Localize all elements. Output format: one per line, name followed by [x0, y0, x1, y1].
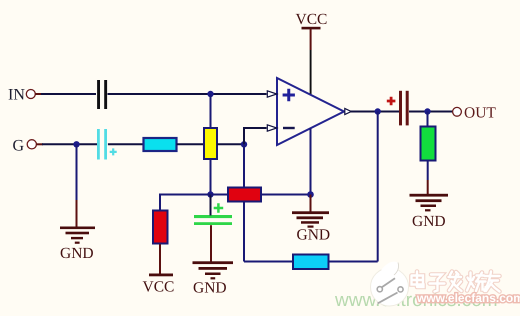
- wire feedback bottom right: [329, 261, 378, 263]
- capacitor C2 (cyan electrolytic): [97, 129, 117, 160]
- node IN-R2 junction: [207, 91, 213, 97]
- wire capacitor to opamp plus input: [108, 93, 267, 95]
- capacitor C3 (green electrolytic): [194, 203, 232, 225]
- svg-text:VCC: VCC: [296, 11, 328, 28]
- resistor R1 (cyan horizontal): [144, 138, 177, 151]
- pin arrow plus input: [267, 91, 277, 97]
- node G junction: [73, 141, 79, 147]
- OUT terminal: [453, 107, 462, 116]
- wire R4 to ground: [427, 161, 429, 195]
- wire opamp bottom to gnd node: [310, 128, 312, 195]
- wire R5 to opamp-gnd node: [261, 194, 311, 196]
- capacitor C1 (input, black): [97, 80, 107, 109]
- power VCC (top): [296, 11, 328, 29]
- node R2-bottom junction: [207, 191, 213, 197]
- node OUT junction: [424, 108, 430, 114]
- resistor R5 (red horizontal): [228, 188, 261, 202]
- wire node left to R3: [160, 195, 211, 212]
- node output junction: [375, 108, 381, 114]
- wire G to capacitor C2: [42, 143, 97, 145]
- svg-text:GND: GND: [60, 245, 94, 262]
- wire IN stub: [35, 93, 42, 95]
- svg-text:OUT: OUT: [464, 105, 496, 122]
- node opamp ground junction: [307, 191, 314, 198]
- wire C3 to ground: [210, 225, 212, 261]
- watermark green url text: [334, 290, 498, 311]
- IN label: [8, 87, 25, 104]
- svg-text:IN: IN: [8, 87, 25, 104]
- wire junction down to R4: [427, 112, 429, 128]
- wire junction up to minus input: [244, 128, 267, 144]
- wire R2 bottom to node: [210, 159, 212, 195]
- wire opamp output: [351, 111, 400, 113]
- G label: [13, 138, 25, 155]
- op-amp U1: [277, 78, 344, 145]
- ground (op-amp): [292, 211, 330, 243]
- node inverting input junction: [241, 141, 247, 147]
- wire R2 right to feedback node: [217, 143, 244, 145]
- wire junction down to R2: [210, 94, 212, 129]
- wire G stub: [37, 143, 44, 145]
- pin arrow minus input: [267, 125, 277, 131]
- capacitor C4 (red output): [387, 91, 409, 126]
- watermark logo circle: [371, 262, 409, 306]
- pin arrow output: [345, 109, 351, 115]
- wire feedback bottom left: [244, 261, 294, 263]
- svg-text:VCC: VCC: [143, 279, 175, 296]
- G terminal: [27, 140, 36, 149]
- svg-text:GND: GND: [412, 213, 446, 230]
- wire node to ground: [310, 195, 312, 212]
- wire VCC down to opamp: [310, 29, 312, 95]
- ground (G input): [60, 227, 95, 263]
- ground (C3): [193, 261, 234, 296]
- ground (output): [410, 194, 449, 230]
- power VCC (bottom): [143, 274, 175, 296]
- wire IN to capacitor: [41, 93, 96, 95]
- OUT label: [464, 105, 496, 122]
- svg-text:G: G: [13, 138, 25, 155]
- resistor R4 (green vertical): [421, 127, 436, 161]
- wire C2 to R1: [108, 143, 144, 145]
- wire feedback vertical down: [243, 144, 245, 261]
- svg-text:www.elecfans.com: www.elecfans.com: [416, 291, 520, 305]
- wire node to C3: [210, 195, 212, 216]
- wire R3 to VCC: [159, 244, 161, 274]
- resistor R6 (cyan horizontal feedback): [293, 255, 329, 270]
- wire node to R5: [211, 194, 229, 196]
- wire feedback right vertical: [377, 112, 379, 262]
- wire C4 to OUT: [409, 111, 453, 113]
- svg-text:GND: GND: [297, 227, 331, 244]
- resistor R3 (red vertical): [153, 211, 168, 244]
- svg-text:GND: GND: [193, 280, 227, 297]
- IN terminal: [26, 90, 35, 99]
- watermark chinese text (drawn glyphs): [412, 272, 500, 292]
- wire R1 to R2: [177, 143, 205, 145]
- resistor R2 (yellow vertical): [204, 128, 217, 159]
- wire G junction down: [76, 144, 78, 227]
- watermark elecfans url: [416, 291, 520, 305]
